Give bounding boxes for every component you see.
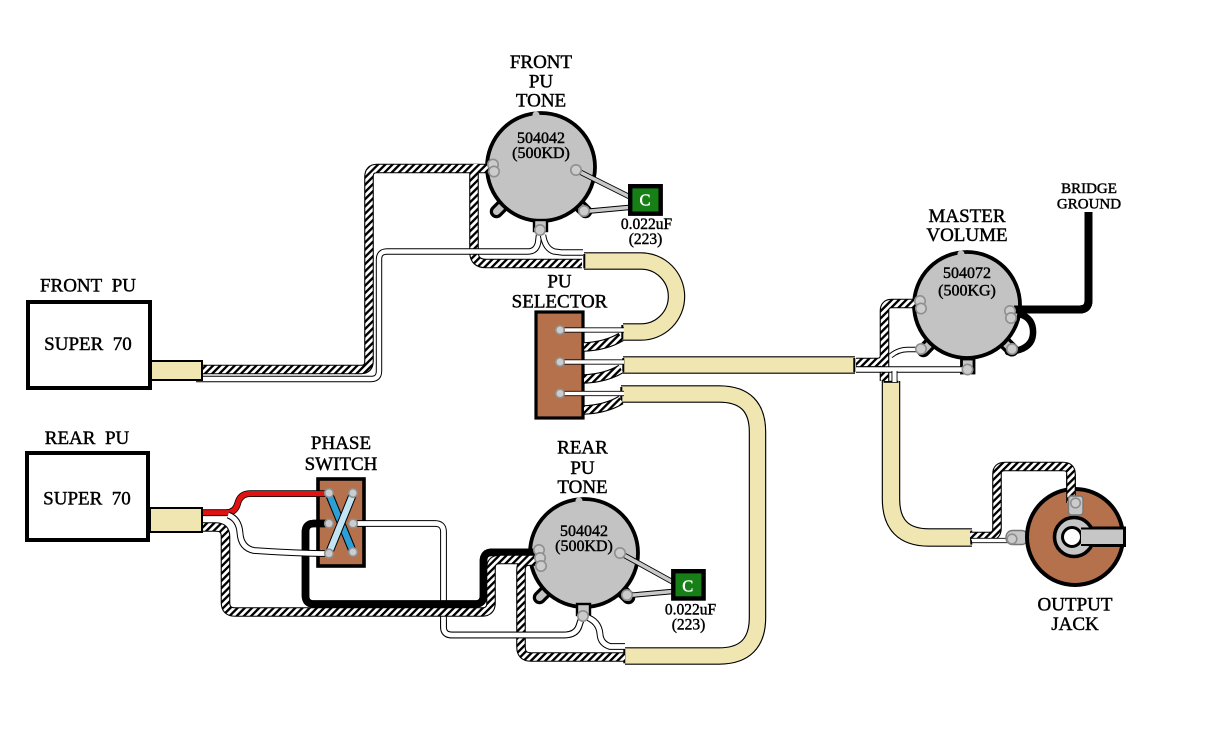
white wire phase switch to rear tone pot lug (under pass) xyxy=(356,524,583,636)
label REAR PU TONE xyxy=(557,438,608,499)
beige jacket end caps xyxy=(584,254,971,663)
svg-text:BRIDGE: BRIDGE xyxy=(1061,181,1117,197)
master volume pot lugs xyxy=(915,296,1017,375)
label FRONT PU TONE xyxy=(510,52,573,112)
svg-text:VOLUME: VOLUME xyxy=(926,225,1007,246)
mounting ear right of rear tone pot xyxy=(618,587,629,598)
label FRONT PU xyxy=(40,276,136,297)
svg-text:GROUND: GROUND xyxy=(1057,197,1121,213)
svg-text:SUPER 70: SUPER 70 xyxy=(43,489,131,510)
front pickup box SUPER 70 xyxy=(28,302,150,388)
svg-text:SUPER 70: SUPER 70 xyxy=(44,334,132,355)
label OUTPUT JACK xyxy=(1038,595,1113,636)
svg-text:FRONT: FRONT xyxy=(510,52,573,73)
svg-text:MASTER: MASTER xyxy=(928,206,1005,227)
gray wire front pot lug to capacitor C1 (horizontal) xyxy=(585,207,634,212)
output jack tab lugs xyxy=(1007,498,1080,544)
rear pickup cable sleeve xyxy=(150,508,202,532)
label PU SELECTOR xyxy=(512,272,608,313)
svg-text:(500KD): (500KD) xyxy=(512,145,570,162)
white wire selector lug 3 to cable xyxy=(560,391,624,396)
svg-text:(500KD): (500KD) xyxy=(555,538,613,555)
rear pickup box SUPER 70 xyxy=(27,453,148,540)
phase switch body xyxy=(318,479,364,566)
mounting ear right of front tone pot xyxy=(575,201,586,212)
mounting ear left of rear tone pot xyxy=(540,587,551,598)
svg-text:(500KG): (500KG) xyxy=(938,283,996,300)
capacitor C2 0.022uF (rear tone) xyxy=(673,571,703,598)
svg-text:PU: PU xyxy=(547,272,572,293)
pot body FRONT PU TONE xyxy=(487,111,595,221)
front tone pot lugs xyxy=(488,159,589,235)
white wire jack cable to jack sleeve tab xyxy=(972,538,1008,543)
svg-text:504072: 504072 xyxy=(943,265,991,282)
red wire rear pickup to phase switch xyxy=(196,494,327,513)
pot body MASTER VOLUME xyxy=(914,250,1020,358)
white wire selector lug 1 to cable xyxy=(560,327,624,332)
capacitor C1 0.022uF (front tone) xyxy=(630,186,661,214)
svg-text:REAR: REAR xyxy=(557,438,608,459)
output jack tip tab xyxy=(1069,496,1084,515)
white wire rear tone pot lug to cable xyxy=(585,617,625,647)
svg-text:PU: PU xyxy=(529,72,554,93)
output jack sleeve tab xyxy=(1006,531,1028,545)
white wire stub into jack cable xyxy=(892,371,898,382)
svg-text:SWITCH: SWITCH xyxy=(305,454,378,475)
svg-text:SELECTOR: SELECTOR xyxy=(512,292,608,313)
mounting ear left of front tone pot xyxy=(497,201,508,212)
capacitor C2 value label xyxy=(665,602,717,634)
phase switch blue jumper (dark, top-left to bottom-right) xyxy=(329,494,353,552)
svg-text:OUTPUT: OUTPUT xyxy=(1038,595,1113,616)
mounting ear right of master volume pot xyxy=(1001,339,1013,350)
white wire front tone pot lug to U cable xyxy=(543,235,583,253)
cable jacket master volume to output jack xyxy=(891,381,972,538)
black ground loop around master pot ear xyxy=(1008,315,1033,353)
white wire patch over braid (switch to rear pot lug) xyxy=(444,617,584,636)
gray wire front pot lug to capacitor C1 (diagonal) xyxy=(577,171,636,201)
white wire front pickup to front tone pot lug xyxy=(196,235,539,379)
braided shield wires (front pickup, rear pickup, selector pigtails, master volume, output jack) xyxy=(196,164,1071,657)
svg-text:(223): (223) xyxy=(672,617,706,634)
svg-text:PHASE: PHASE xyxy=(311,433,371,454)
white wire rear pickup to phase switch xyxy=(228,515,326,554)
cable jacket from front tone to selector (U-turn) xyxy=(584,261,677,332)
black bridge ground wire xyxy=(1014,212,1089,310)
braid over jack rim xyxy=(1066,474,1076,503)
svg-text:C: C xyxy=(682,577,693,596)
phase switch lugs xyxy=(325,489,358,558)
gray wire rear pot lug to capacitor C2 (diagonal) xyxy=(621,554,680,587)
svg-text:TONE: TONE xyxy=(557,477,607,498)
white wire cable to master volume bottom lug xyxy=(856,366,963,372)
svg-text:C: C xyxy=(639,191,650,210)
phase switch blue jumper (light, bottom-left to top-right) xyxy=(329,494,353,553)
solder tab bottom of rear tone pot xyxy=(577,604,590,615)
front pickup cable sleeve xyxy=(151,361,202,380)
white wire selector lug 2 to cable xyxy=(560,359,624,364)
output jack prong over ring xyxy=(1081,529,1124,546)
svg-text:TONE: TONE xyxy=(516,91,566,112)
solder tab bottom of master volume pot xyxy=(962,359,975,373)
capacitor C1 value label xyxy=(621,216,673,248)
svg-text:FRONT PU: FRONT PU xyxy=(40,276,136,297)
svg-text:(223): (223) xyxy=(629,231,663,248)
svg-text:JACK: JACK xyxy=(1051,614,1099,635)
pot body REAR PU TONE xyxy=(530,497,638,607)
mounting ear left of master volume pot xyxy=(924,339,935,351)
white wire to master volume left ear lug xyxy=(891,350,919,357)
output jack ring xyxy=(1055,518,1094,557)
black wire phase switch to rear tone pot xyxy=(306,524,538,605)
label PHASE SWITCH xyxy=(305,433,378,475)
cable jacket selector to rear tone xyxy=(621,394,758,656)
selector lugs xyxy=(556,326,565,398)
gray wire rear pot lug to capacitor C2 (horizontal) xyxy=(628,591,678,596)
output jack body xyxy=(1027,489,1123,585)
cable jacket selector to master volume xyxy=(623,356,855,374)
solder tab bottom of front tone pot xyxy=(534,220,547,231)
svg-text:PU: PU xyxy=(570,458,595,479)
PU selector switch body xyxy=(536,312,583,418)
label MASTER VOLUME xyxy=(926,206,1007,246)
output jack prong xyxy=(1080,528,1125,547)
rear tone pot lugs xyxy=(534,545,632,621)
label REAR PU xyxy=(45,428,130,449)
svg-text:REAR PU: REAR PU xyxy=(45,428,130,449)
label BRIDGE GROUND xyxy=(1057,181,1121,213)
